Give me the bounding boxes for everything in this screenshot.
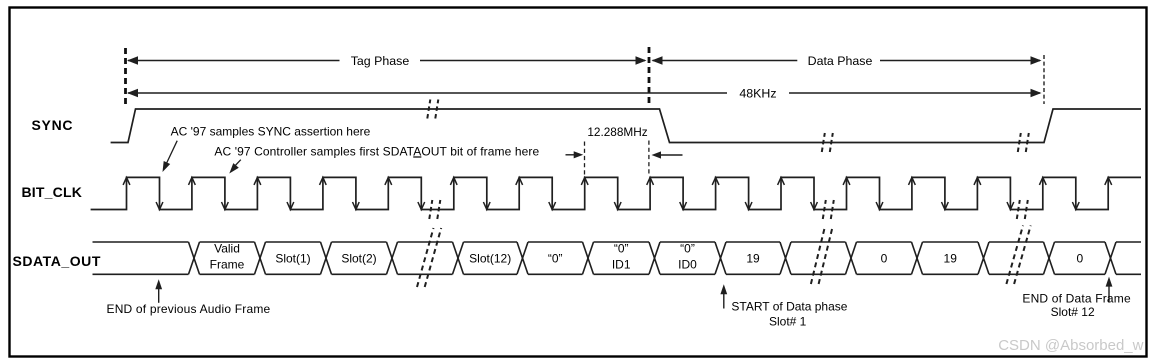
svg-text:Slot# 1: Slot# 1: [769, 315, 807, 329]
annotation arrow: START of Data phase: [720, 284, 727, 308]
svg-text:CSDN @Absorbed_w: CSDN @Absorbed_w: [998, 337, 1143, 354]
annotation arrow: END of previous Audio Frame: [155, 279, 162, 303]
svg-text:“0”: “0”: [614, 242, 629, 256]
dashed period marker left: [584, 142, 586, 177]
Tag Phase dimension arrow: [127, 54, 647, 68]
svg-text:Tag Phase: Tag Phase: [351, 54, 410, 68]
svg-text:SDATA_OUT: SDATA_OUT: [13, 253, 101, 269]
break slashes in SDATA cell (frame end): [1006, 226, 1030, 285]
svg-text:0: 0: [881, 252, 888, 266]
svg-text:BIT_CLK: BIT_CLK: [22, 184, 83, 200]
svg-text:0: 0: [1076, 252, 1083, 266]
frame-boundary dashed marker (right, end of Data Phase): [1043, 55, 1045, 104]
SYNC waveform: [111, 109, 1141, 143]
svg-text:Slot# 12: Slot# 12: [1051, 305, 1095, 319]
svg-text:START of Data phase: START of Data phase: [731, 299, 847, 313]
break marks on BIT_CLK low line: [429, 200, 1028, 219]
svg-text:AC '97 samples SYNC assertion: AC '97 samples SYNC assertion here: [171, 125, 371, 139]
svg-text:“0”: “0”: [548, 252, 563, 266]
svg-text:12.288MHz: 12.288MHz: [587, 125, 647, 139]
break slashes in SDATA cell (tag phase): [417, 228, 441, 287]
svg-text:19: 19: [944, 252, 958, 266]
break marks on SYNC high (tag phase): [427, 100, 438, 119]
period arrow right (points left): [652, 151, 683, 158]
svg-text:Slot(1): Slot(1): [275, 252, 310, 266]
annotation arrow to first BIT_CLK pulse: [163, 141, 178, 172]
break marks on SYNC low (data phase): [822, 133, 833, 152]
svg-text:ID0: ID0: [678, 258, 697, 272]
svg-text:END of previous Audio Frame: END of previous Audio Frame: [107, 302, 271, 316]
Data Phase dimension arrow: [652, 54, 1042, 68]
BIT_CLK edge arrows: [123, 177, 1112, 209]
frame-boundary dashed marker (center, Tag/Data boundary): [648, 47, 651, 106]
svg-text:Valid: Valid: [214, 242, 240, 256]
svg-text:ID1: ID1: [612, 258, 631, 272]
svg-text:SYNC: SYNC: [32, 117, 74, 133]
svg-text:Slot(12): Slot(12): [469, 252, 511, 266]
frame-boundary dashed marker (left, start of Tag Phase): [124, 48, 127, 106]
svg-text:AC '97 Controller samples firs: AC '97 Controller samples first SDATAOUT…: [214, 144, 539, 158]
annotation arrow: END of Data Frame: [1106, 277, 1113, 303]
48KHz frame-period dimension arrow: [127, 86, 1042, 100]
dashed period marker right: [648, 141, 650, 177]
SDATA_OUT waveform cells: [93, 242, 1142, 274]
svg-text:Slot(2): Slot(2): [341, 252, 376, 266]
svg-text:Frame: Frame: [210, 258, 245, 272]
break slashes in SDATA cell (data phase): [811, 226, 833, 285]
period arrow left (points right): [566, 151, 584, 158]
svg-text:END of Data Frame: END of Data Frame: [1022, 292, 1131, 306]
svg-text:“0”: “0”: [680, 242, 695, 256]
svg-text:48KHz: 48KHz: [739, 86, 776, 100]
annotation arrow to second BIT_CLK pulse: [229, 160, 241, 174]
BIT_CLK waveform: [91, 177, 1141, 209]
svg-text:19: 19: [746, 252, 760, 266]
break marks on SYNC low (near frame end): [1018, 133, 1029, 152]
svg-text:Data Phase: Data Phase: [808, 54, 873, 68]
